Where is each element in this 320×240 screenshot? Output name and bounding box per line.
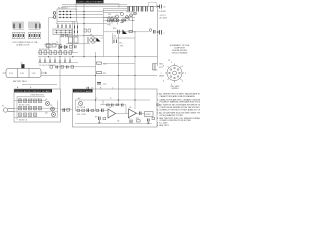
svg-text:R14: R14 xyxy=(108,14,111,16)
wires output stage xyxy=(96,100,145,113)
resistor R18 xyxy=(84,29,87,32)
svg-text:4. CONNECT POINT A TO POINT A: 4. CONNECT POINT A TO POINT A AND SO ON … xyxy=(157,109,200,112)
capacitor C46 xyxy=(102,109,104,113)
labels osc parts xyxy=(19,99,52,122)
label box LS1 xyxy=(145,112,154,117)
wire left feeder xyxy=(49,18,55,50)
transistor Q5 xyxy=(52,113,56,117)
resistor R32 xyxy=(34,99,37,103)
resistor R13 xyxy=(114,19,116,22)
logic board outline xyxy=(76,0,119,10)
capacitor C14 xyxy=(146,6,148,11)
svg-text:C21: C21 xyxy=(113,36,116,38)
capacitor C30 xyxy=(29,99,32,103)
input jack P1 xyxy=(3,108,14,112)
resistor R37 xyxy=(24,113,27,117)
svg-text:POSITION AS VIEWED FROM THE FR: POSITION AS VIEWED FROM THE FRONT PANEL. xyxy=(160,106,201,109)
svg-text:SPKR: SPKR xyxy=(146,114,152,116)
svg-text:TP1: TP1 xyxy=(120,46,123,48)
svg-text:OR EQUIVALENT TYPES.: OR EQUIVALENT TYPES. xyxy=(160,114,184,117)
capacitor C33 xyxy=(39,106,42,110)
vertical feeders to lower boards xyxy=(22,32,157,100)
svg-text:POLARITY MARKED ONES ARE ELECT: POLARITY MARKED ONES ARE ELECTROLYTIC. xyxy=(160,101,201,104)
resistor R33 xyxy=(19,106,22,110)
capacitor C40 xyxy=(87,109,89,113)
svg-text:C8: C8 xyxy=(117,121,119,123)
capacitor C12 xyxy=(137,6,139,11)
resistor R23 xyxy=(66,34,68,37)
svg-text:R9: R9 xyxy=(95,116,97,118)
svg-text:3: 3 xyxy=(185,73,186,75)
svg-text:WIRING: WIRING xyxy=(171,88,179,90)
capacitor C41 xyxy=(112,104,114,107)
resistor R7 xyxy=(64,51,67,54)
resistor R31 xyxy=(24,99,27,103)
svg-text:ALL BDS: ALL BDS xyxy=(160,16,168,19)
diode D2 xyxy=(65,46,68,49)
capacitor C35 xyxy=(63,108,65,112)
capacitor C45 xyxy=(140,112,142,116)
svg-text:R1 R2 R3 R4: R1 R2 R3 R4 xyxy=(39,49,50,51)
component marks inside osc rects xyxy=(20,100,40,116)
resistor R42 xyxy=(91,109,94,111)
resistor R26 xyxy=(61,66,64,69)
resistor R22 xyxy=(61,34,63,37)
resistor R34 xyxy=(24,106,27,110)
resistor R2 xyxy=(44,51,47,54)
battery terminal symbol xyxy=(21,64,24,68)
svg-text:Q5: Q5 xyxy=(129,107,131,109)
resistor R51 xyxy=(152,118,155,120)
svg-text:CIRCUIT BOARD: CIRCUIT BOARD xyxy=(172,52,188,55)
pot cluster upper right xyxy=(110,12,123,20)
label cluster boxes xyxy=(46,44,56,48)
svg-text:U1 AND U2 ICS: U1 AND U2 ICS xyxy=(16,43,30,46)
IC U2 pinout view xyxy=(29,22,40,30)
resistor R1 xyxy=(39,51,42,54)
labels chain1 xyxy=(108,17,116,19)
capacitor C23 xyxy=(56,66,58,69)
op-amp A1 xyxy=(108,109,116,118)
svg-text:TO SPKR: TO SPKR xyxy=(158,11,167,13)
resistor R46 xyxy=(137,120,141,122)
capacitor C24 xyxy=(67,66,69,69)
svg-text:1: 1 xyxy=(171,62,172,64)
svg-text:C15: C15 xyxy=(119,43,122,45)
transistor Q10 xyxy=(79,102,83,106)
capacitor C34 xyxy=(29,113,32,117)
resistor R3 xyxy=(49,51,52,54)
svg-text:R10: R10 xyxy=(103,64,106,66)
resistor R40 xyxy=(77,109,80,111)
svg-text:6: 6 xyxy=(163,81,164,83)
svg-text:4: 4 xyxy=(182,81,183,83)
svg-text:R11: R11 xyxy=(103,73,106,75)
resistor R17 at bus xyxy=(154,30,156,34)
corner box top right xyxy=(149,3,157,9)
svg-text:P1: P1 xyxy=(2,106,4,108)
svg-text:CAPACITORS ARE IN MICROFARADS.: CAPACITORS ARE IN MICROFARADS. xyxy=(160,95,196,98)
transistor Q4 xyxy=(51,107,55,111)
svg-text:J3: J3 xyxy=(168,60,170,62)
capacitor C11 xyxy=(132,6,134,11)
wires center xyxy=(58,22,103,57)
svg-text:470 .1 22K: 470 .1 22K xyxy=(77,114,86,116)
resistor R11 xyxy=(97,72,102,74)
battery BT1 multicell pack xyxy=(3,69,47,78)
svg-text:2: 2 xyxy=(182,66,183,68)
top bus wires xyxy=(62,5,157,13)
oscillator board title bar xyxy=(14,89,52,92)
notes list xyxy=(156,93,213,127)
capacitor C19 xyxy=(118,30,120,34)
svg-text:R12: R12 xyxy=(136,118,139,120)
diode D1 xyxy=(59,46,62,49)
vertical bus A xyxy=(84,4,112,36)
svg-text:R1 R2 C1 R3: R1 R2 C1 R3 xyxy=(19,104,30,106)
resistor R16 xyxy=(129,30,133,32)
svg-text:Q3: Q3 xyxy=(45,113,47,115)
transistor chain wire xyxy=(106,19,135,21)
terminal strip TB1 xyxy=(47,45,52,48)
labels chain xyxy=(77,107,86,116)
oscillator board contents xyxy=(14,97,58,121)
svg-text:Q2: Q2 xyxy=(50,105,52,107)
U1 pin numbers row xyxy=(12,33,25,39)
svg-text:BATTERY PACK: BATTERY PACK xyxy=(13,80,28,83)
svg-text:10: 10 xyxy=(21,63,23,65)
resistor R6 xyxy=(59,51,62,54)
svg-text:C20: C20 xyxy=(103,84,106,86)
socket caption xyxy=(170,85,180,90)
svg-text:C9: C9 xyxy=(128,118,130,120)
connector bracket to socket xyxy=(153,64,158,71)
svg-text:GND: GND xyxy=(159,64,164,66)
ground G3 xyxy=(147,122,149,124)
label +9V bus xyxy=(160,15,168,19)
capacitor C18 xyxy=(157,30,161,35)
svg-text:OSCILLATOR CIRCUIT BOARD: OSCILLATOR CIRCUIT BOARD xyxy=(15,90,51,93)
IC U1 pinout view xyxy=(13,22,24,30)
capacitor row 2 xyxy=(40,60,70,63)
capacitor C20 xyxy=(97,83,101,85)
capacitor C22 xyxy=(75,45,77,48)
capacitor C10 xyxy=(128,6,130,11)
svg-text:TONE SECTION: TONE SECTION xyxy=(30,94,44,96)
capacitor C16 xyxy=(157,5,161,9)
label C16 value xyxy=(158,7,167,14)
resistor R27 xyxy=(71,66,74,69)
capacitor C31 xyxy=(39,99,42,103)
output board contents xyxy=(75,100,152,124)
ground G1 xyxy=(98,120,100,123)
transistor Q1 xyxy=(88,37,103,43)
resistor R8 xyxy=(69,51,72,54)
svg-text:R4 R5 C3: R4 R5 C3 xyxy=(19,119,27,121)
svg-text:R16: R16 xyxy=(113,28,116,30)
switch S1 block xyxy=(57,9,84,22)
capacitor C47 xyxy=(99,117,101,121)
svg-text:Q4: Q4 xyxy=(109,107,111,109)
svg-text:8: 8 xyxy=(163,66,164,68)
svg-text:OUTPUT AMP: OUTPUT AMP xyxy=(74,90,93,93)
resistor R38 xyxy=(34,113,37,117)
svg-text:R7 C6 R8: R7 C6 R8 xyxy=(77,107,85,109)
resistor R44 xyxy=(107,104,110,106)
resistor R4 xyxy=(54,51,57,54)
U2 pin numbers row xyxy=(28,33,41,39)
battery caption xyxy=(13,80,28,83)
switch S2 block xyxy=(53,29,72,35)
resistor R36 xyxy=(19,113,22,117)
wire between boards xyxy=(61,109,73,111)
capacitor C15 xyxy=(114,40,117,44)
resistor R41 xyxy=(82,109,85,111)
resistor R5 on vertical pair xyxy=(75,22,78,37)
resistor R45 xyxy=(116,104,119,106)
transistor Q6 xyxy=(111,19,114,22)
logic board title bar xyxy=(76,0,104,3)
figure caption text xyxy=(170,44,190,55)
RC network row 1 xyxy=(38,52,78,54)
right vertical bus wire xyxy=(156,5,158,66)
output board box xyxy=(73,89,158,127)
capacitor C32 xyxy=(29,106,32,110)
capacitor C13 xyxy=(141,6,143,11)
output board title bar xyxy=(73,89,93,92)
jack J1 xyxy=(53,12,56,15)
transformer T1 xyxy=(68,36,79,43)
svg-text:C5 C6 C7 C8 C9 R9: C5 C6 C7 C8 C9 R9 xyxy=(39,65,55,67)
capacitor C49 on box top xyxy=(87,87,89,91)
svg-text:DASH: DASH xyxy=(159,75,165,78)
caption for pinout views xyxy=(13,42,39,46)
net labels above boards xyxy=(17,86,114,89)
resistor R20 xyxy=(151,7,154,12)
resistor R24 xyxy=(70,45,73,48)
resistor R19 xyxy=(88,29,91,32)
transistor Q7 xyxy=(116,19,119,22)
resistor R39 xyxy=(67,108,70,111)
capacitor C43 xyxy=(130,120,132,124)
capacitor bank C1-C4 xyxy=(58,25,70,29)
oscillator board box xyxy=(14,89,61,122)
main horizontal bus xyxy=(38,56,157,58)
svg-text:LOGIC CIRCUIT BOARD: LOGIC CIRCUIT BOARD xyxy=(77,1,103,4)
label S1 xyxy=(58,7,69,9)
resistor R35 xyxy=(34,106,37,110)
wires mid xyxy=(116,105,129,114)
svg-text:.05: .05 xyxy=(163,7,166,9)
svg-text:.1: .1 xyxy=(163,33,165,35)
transistor Q8 xyxy=(122,19,125,22)
resistor R10 xyxy=(97,62,102,64)
transistor Q3 xyxy=(46,102,50,106)
svg-text:8. SEE TEXT.: 8. SEE TEXT. xyxy=(157,125,170,127)
resistor R43 xyxy=(96,109,99,111)
svg-text:CR1 CR2: CR1 CR2 xyxy=(126,12,134,14)
capacitor C42 xyxy=(122,104,124,107)
svg-text:Q1: Q1 xyxy=(45,99,47,101)
jack J2 xyxy=(53,16,56,19)
capacitor C48 xyxy=(148,119,150,122)
op-amp A2 xyxy=(129,109,137,118)
wire cap row top xyxy=(128,5,148,7)
tube socket V1 bottom view xyxy=(161,62,187,90)
svg-text:R15: R15 xyxy=(125,18,128,20)
resistor R12 xyxy=(108,19,110,22)
resistor R30 xyxy=(19,99,22,103)
resistor R25 xyxy=(50,66,53,69)
transistor Q2 xyxy=(123,29,152,34)
resistor R50 xyxy=(103,118,106,120)
diode chain 2 xyxy=(126,12,137,18)
